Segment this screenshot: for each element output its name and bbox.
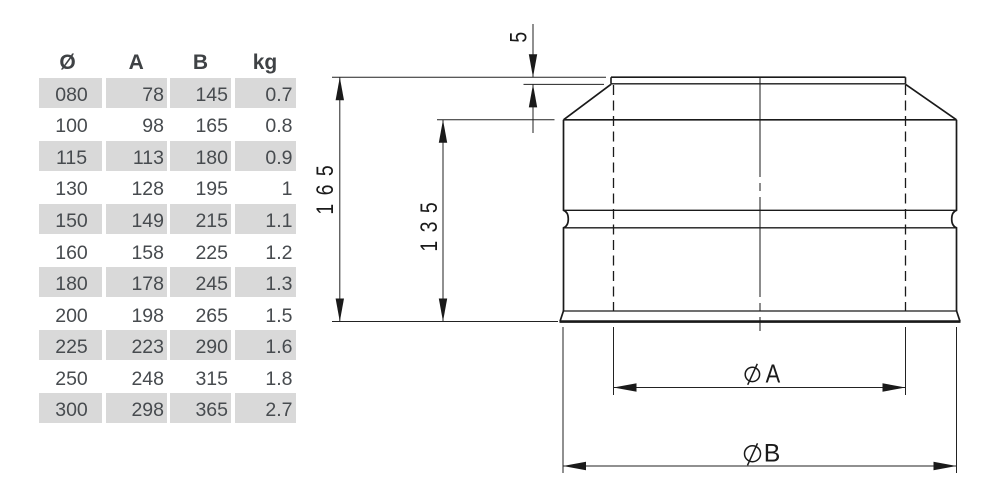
- svg-text:5: 5: [505, 32, 533, 43]
- svg-text:B: B: [764, 440, 781, 468]
- svg-text:A: A: [766, 360, 781, 389]
- svg-text:135: 135: [415, 194, 443, 252]
- svg-text:165: 165: [311, 157, 339, 215]
